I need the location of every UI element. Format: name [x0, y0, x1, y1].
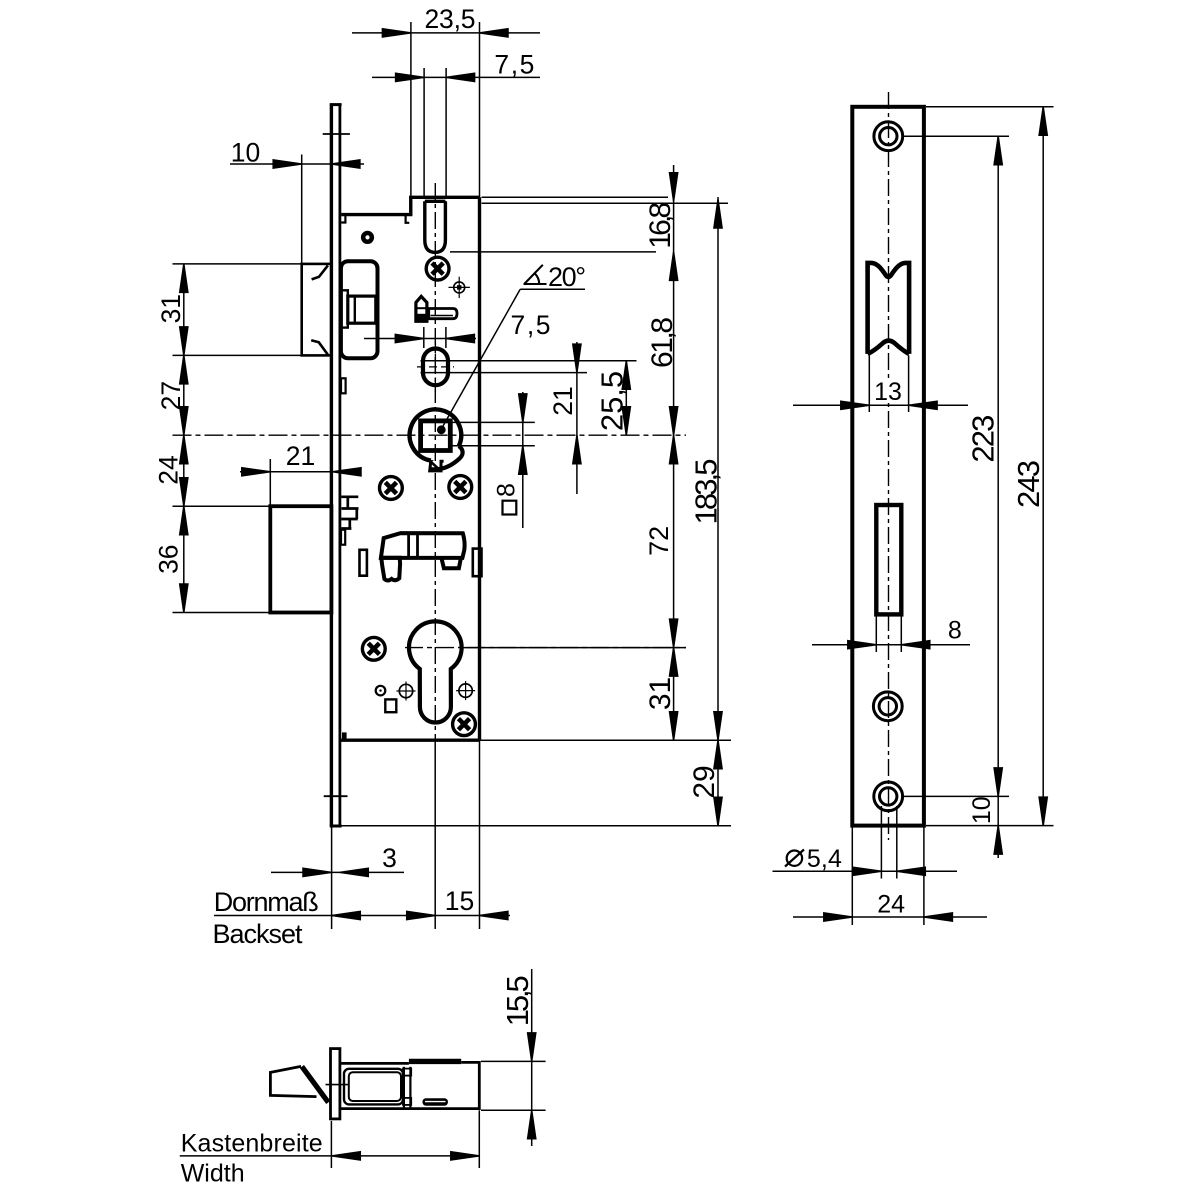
- case top notch right: [406, 215, 410, 223]
- lock case bottom edge: [341, 739, 480, 742]
- svg-text:72: 72: [644, 526, 674, 556]
- dim 15,5: [481, 1060, 546, 1062]
- latch tail block: [348, 296, 376, 323]
- phillips screw P4: [362, 637, 385, 660]
- svg-text:24: 24: [877, 890, 905, 918]
- svg-text:13: 13: [874, 378, 902, 406]
- dim 13: [868, 355, 870, 412]
- dim 7,5 oval slot: [364, 338, 476, 340]
- svg-text:Width: Width: [181, 1160, 245, 1188]
- case top notch left: [341, 215, 345, 223]
- screw hole top: [874, 122, 903, 151]
- svg-text:10: 10: [231, 138, 260, 168]
- phillips screw P3: [449, 476, 472, 499]
- case bottom-left notch: [342, 732, 347, 739]
- plan latch bevel: [302, 1067, 328, 1103]
- faceplate front view outline: [852, 107, 924, 826]
- dim 25,5: [625, 361, 627, 435]
- tumbler lever leg: [381, 558, 400, 581]
- crosshair circle C3: [456, 681, 475, 700]
- svg-text:31: 31: [644, 677, 677, 710]
- faceplate break tick lower: [324, 795, 348, 797]
- plan inner wall 1: [344, 1069, 403, 1105]
- svg-text:31: 31: [156, 294, 186, 323]
- locking lever small part: [416, 296, 427, 321]
- svg-text:61,8: 61,8: [646, 317, 679, 368]
- lock case top edge stepped: [341, 197, 479, 214]
- deadbolt head: [270, 506, 331, 612]
- follower disc with notch: [410, 409, 462, 460]
- latch head bevel mark top: [312, 265, 328, 279]
- small square S1: [385, 699, 396, 712]
- dim 223 and 10: [903, 135, 1009, 137]
- diameter symbol: [785, 850, 804, 867]
- oval slot: [423, 349, 448, 386]
- faceplate centerline: [888, 92, 890, 840]
- tumbler lever right foot: [441, 558, 461, 568]
- centerline cylinder axis horizontal: [405, 647, 686, 649]
- dim diameter 5,4: [880, 806, 882, 879]
- angle symbol: [524, 265, 547, 284]
- svg-text:8: 8: [493, 483, 521, 497]
- plan latch bolt tip: [270, 1066, 316, 1096]
- latch bolt in top slot: [425, 201, 446, 252]
- tumbler lever body: [381, 533, 465, 558]
- svg-text:10: 10: [968, 796, 996, 824]
- screw hole bottom: [874, 782, 903, 811]
- plan inner wall 2: [349, 1072, 401, 1101]
- lock case right edge: [478, 197, 481, 740]
- latch bolt block inside case: [341, 261, 378, 358]
- deadbolt cutout: [876, 505, 901, 614]
- guide slot left: [360, 550, 367, 576]
- svg-text:7,5: 7,5: [494, 50, 534, 80]
- phillips screw P2: [380, 477, 403, 500]
- plan case outline: [340, 1062, 479, 1108]
- svg-text:15,5: 15,5: [500, 975, 535, 1026]
- text square 8: [503, 501, 517, 515]
- dim 23,5 top: [352, 32, 540, 34]
- phillips screw P5: [453, 713, 476, 736]
- pin under case corner: [361, 231, 374, 244]
- faceplate stop block lower: [341, 530, 345, 545]
- svg-text:20°: 20°: [548, 262, 586, 292]
- svg-text:Backset: Backset: [213, 919, 303, 949]
- dim 10 latch protrusion: [230, 163, 364, 165]
- plan faceplate tick: [326, 1084, 350, 1086]
- lever rib lines: [407, 533, 410, 558]
- lever shaft: [429, 309, 457, 319]
- plan slot dark: [423, 1098, 448, 1106]
- angle 20 leader: [520, 288, 585, 290]
- svg-text:24: 24: [154, 455, 184, 484]
- latch spring window: [341, 290, 348, 327]
- svg-text:223: 223: [966, 415, 1001, 463]
- dim 21 right: [576, 342, 578, 494]
- screw hole middle: [873, 692, 902, 721]
- follower bottom tab: [430, 461, 444, 471]
- dim line 183,5 and 29: [717, 197, 719, 826]
- small circle T1: [376, 686, 386, 696]
- crosshair circle C2: [397, 682, 416, 701]
- dim 8: [875, 614, 877, 652]
- svg-text:25,5: 25,5: [595, 371, 630, 431]
- svg-text:21: 21: [548, 386, 578, 415]
- follower square hole 8mm: [421, 421, 451, 451]
- left chain reference lines: [173, 263, 302, 265]
- plan faceplate: [331, 1049, 340, 1119]
- plan partition: [403, 1067, 405, 1109]
- svg-text:21: 21: [286, 441, 315, 471]
- latch cutout with V notch: [868, 263, 910, 354]
- plan case top thick band: [409, 1059, 461, 1064]
- svg-text:243: 243: [1011, 460, 1046, 508]
- svg-text:27: 27: [156, 381, 186, 410]
- centerline vertical lock axis: [434, 183, 436, 740]
- deadbolt spring zigzag: [341, 497, 358, 529]
- dim Dornmass Backset and 15: [214, 915, 510, 917]
- svg-text:36: 36: [154, 544, 184, 573]
- dim 24 bottom: [851, 826, 853, 925]
- faceplate stop block upper: [341, 378, 346, 393]
- svg-text:Kastenbreite: Kastenbreite: [181, 1130, 323, 1158]
- latch bolt head protruding: [302, 264, 332, 356]
- dim Kastenbreite width: [330, 1121, 332, 1168]
- svg-text:7,5: 7,5: [511, 310, 551, 340]
- svg-text:Dornmaß: Dornmaß: [214, 887, 319, 917]
- faceplate (Stulp) side view: [330, 105, 333, 826]
- svg-text:23,5: 23,5: [425, 4, 476, 34]
- svg-text:3: 3: [382, 843, 397, 873]
- crosshair mark C1: [449, 277, 470, 298]
- faceplate break tick upper: [323, 133, 350, 135]
- phillips screw P1 below latch: [426, 257, 449, 280]
- dim 7,5 top latch slot: [372, 76, 540, 78]
- svg-text:15: 15: [445, 886, 474, 916]
- dim 21 deadbolt throw: [240, 471, 339, 473]
- dim square 8 follower: [451, 421, 535, 423]
- svg-text:8: 8: [948, 616, 962, 644]
- text 13: [871, 380, 905, 402]
- dim 3 faceplate thickness: [271, 871, 404, 873]
- svg-text:183,5: 183,5: [689, 459, 724, 525]
- svg-text:5,4: 5,4: [807, 845, 842, 873]
- right references: [482, 196, 668, 198]
- dim 243: [926, 106, 1054, 108]
- guide slot right: [473, 549, 482, 577]
- svg-text:16,8: 16,8: [644, 202, 677, 249]
- cylinder hole europrofile: [409, 621, 462, 722]
- centerline follower axis horizontal: [173, 434, 687, 436]
- svg-text:29: 29: [688, 765, 721, 798]
- right dim line 16,8 61,8 72 31: [673, 165, 675, 740]
- left dimension chain line 31 27 24 36: [183, 264, 185, 613]
- latch head bevel mark bottom: [311, 340, 328, 355]
